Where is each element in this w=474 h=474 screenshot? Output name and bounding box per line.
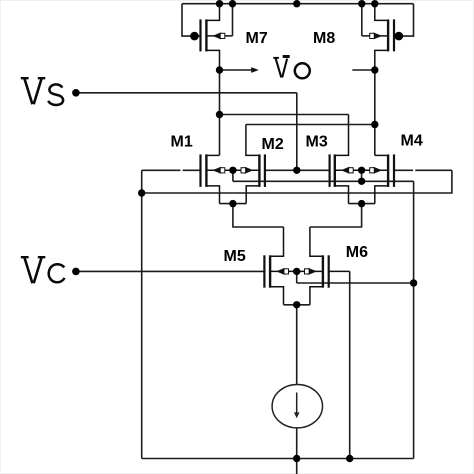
wire right frame vertical	[413, 181, 415, 458]
label Vc	[21, 257, 65, 283]
wire tail source L to M5 drain	[233, 204, 284, 227]
wire top rail	[182, 3, 414, 5]
junction bulk right frame	[410, 279, 417, 286]
wire cross link M8/M4 drains to M2 drain	[246, 124, 375, 126]
label Vs	[21, 78, 63, 105]
wire bottom rail	[142, 458, 414, 460]
junction funnel M5/M6	[293, 301, 300, 308]
wire M8 bulk riser to rail	[361, 4, 363, 36]
junction bottom rail current source	[293, 455, 300, 462]
svg-text:M5: M5	[224, 248, 246, 265]
svg-text:M2: M2	[262, 136, 284, 153]
wire M2-M3 gate link	[265, 169, 330, 171]
wire bulk pair L drop	[232, 170, 234, 181]
wire gate rail M1-M4	[142, 170, 452, 193]
svg-text:M1: M1	[171, 134, 193, 151]
wire funnel M5/M6 bottom	[284, 304, 310, 306]
node Vo right	[371, 66, 378, 73]
wire Vc input line	[76, 270, 265, 272]
wire funnel R bottom	[349, 203, 375, 205]
transistor M6	[297, 227, 350, 305]
wire bulk pair R riser	[361, 170, 363, 181]
wire M4 gate lead (with jump gap)	[394, 169, 452, 171]
wire tail to current source	[296, 305, 298, 385]
wire current source to bottom rail	[296, 428, 298, 474]
wire Vs input line	[76, 92, 297, 94]
junction funnel R	[358, 200, 365, 207]
transistor M1	[201, 154, 233, 203]
transistor M5	[264, 227, 296, 305]
wire bulk M5/M6 to right frame	[297, 282, 414, 284]
wire tail source R to M6 drain	[310, 204, 362, 227]
junction bulk M5/M6	[293, 268, 300, 275]
junction top rail M8 bulk	[358, 0, 365, 7]
wire node VoL vertical (M7 drain to M1 drain)	[219, 70, 221, 155]
wire M8 gate to top rail (right outer)	[394, 4, 414, 36]
wire M7 gate to top rail (left outer)	[182, 4, 201, 36]
wire M6 gate drop to bottom rail	[349, 271, 351, 458]
transistor M3	[330, 115, 362, 204]
junction bottom rail M6 gate	[346, 455, 353, 462]
wire bulk cross link	[233, 180, 414, 182]
wire Vo pointer line	[220, 69, 255, 71]
wire cross link M7/M1 drains to M3 drain	[220, 114, 349, 116]
wire M1 gate lead (with jump gap)	[142, 169, 201, 171]
wire Vs drop to M2/M3 gate link	[296, 93, 298, 171]
transistor M7	[201, 4, 233, 70]
transistor M4	[362, 154, 394, 203]
svg-text:M8: M8	[313, 30, 335, 47]
junction bulk pair R	[358, 167, 365, 174]
node Vo left	[216, 66, 223, 73]
transistor M8	[362, 4, 394, 70]
wire node VoR vertical (M8 drain to M4 drain)	[374, 70, 376, 155]
terminal Vs	[72, 89, 80, 97]
junction top rail M7 bulk	[229, 0, 236, 7]
junction top rail M8 drain	[371, 0, 378, 7]
svg-text:M7: M7	[246, 30, 268, 47]
junction top rail center	[293, 0, 300, 7]
Vo pointer arrowhead	[251, 67, 259, 73]
junction bulk cross	[358, 178, 365, 185]
svg-text:M6: M6	[346, 244, 368, 261]
transistor M2	[233, 125, 265, 204]
junction Vs to gates	[293, 167, 300, 174]
wire funnel L bottom	[220, 203, 247, 205]
current source I1	[272, 385, 322, 428]
junction M7 gate	[190, 32, 199, 41]
wire M7 bulk riser to rail	[232, 4, 234, 36]
wire M5/M6 bulk drop	[296, 271, 298, 283]
label Vo	[273, 57, 310, 79]
junction M8 gate	[395, 32, 404, 41]
junction bulk pair L	[229, 167, 236, 174]
junction funnel L	[229, 200, 236, 207]
junction cross link right	[371, 121, 378, 128]
junction top rail M7 drain	[216, 0, 223, 7]
svg-text:M3: M3	[306, 134, 328, 151]
wire left frame vertical	[141, 170, 143, 458]
svg-text:M4: M4	[401, 133, 423, 150]
terminal Vc	[72, 268, 80, 276]
junction gate rail left	[138, 189, 145, 196]
junction cross link left	[216, 111, 223, 118]
wire Vo right stub	[352, 69, 375, 71]
